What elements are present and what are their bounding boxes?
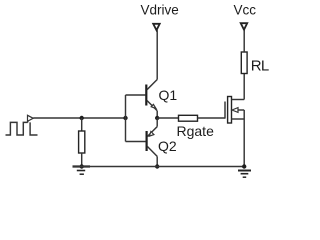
wire Q2 base [126, 141, 146, 143]
wire pull-down resistor bottom lead [81, 153, 83, 167]
MOSFET M1 source stub [232, 118, 245, 120]
power Vdrive arrow [153, 24, 160, 30]
wire Q2 collector to ground rail [156, 156, 158, 166]
node source/ground rail [242, 164, 246, 168]
svg-text:Q2: Q2 [158, 138, 177, 154]
svg-text:Rgate: Rgate [177, 123, 215, 139]
node input/pull-down junction [80, 116, 84, 120]
node output (emitters join) [155, 116, 159, 120]
resistor Rgate [179, 115, 198, 121]
svg-text:RL: RL [251, 58, 269, 75]
svg-text:Vdrive: Vdrive [141, 3, 179, 18]
wire source to ground [243, 110, 245, 167]
node pull-down to ground rail [80, 164, 84, 168]
wire Q2 emitter from output node [156, 118, 158, 127]
wire drain to RL [243, 74, 245, 100]
MOSFET M1 gate lead [224, 102, 226, 119]
wire input to base node [33, 117, 125, 119]
wire Q1 collector to Vdrive [156, 30, 158, 79]
wire Q1 emitter to output node [156, 111, 158, 118]
node base link junction [123, 116, 127, 120]
svg-text:Vcc: Vcc [234, 2, 257, 17]
wire output node to Rgate [157, 117, 178, 119]
wire Rgate to gate [198, 117, 226, 119]
node Q2 collector on ground rail [155, 164, 159, 168]
svg-text:Q1: Q1 [159, 87, 178, 103]
wire base link vertical [125, 95, 127, 142]
transistor Q1 (NPN) [146, 80, 157, 111]
MOSFET M1 body arrow [232, 108, 244, 113]
wire ground rail [73, 166, 245, 168]
MOSFET M1 drain stub [232, 99, 245, 101]
wire RL to Vcc arrow [243, 30, 245, 52]
input pulse source symbol [6, 115, 38, 135]
resistor R1 (input pull-down) [79, 131, 85, 153]
power Vcc arrow [241, 23, 248, 30]
transistor Q2 (PNP) [147, 127, 158, 157]
ground (left) [73, 167, 91, 175]
resistor RL [241, 52, 247, 74]
wire Q1 base [126, 94, 146, 96]
MOSFET M1 channel [228, 97, 232, 124]
ground (right) [238, 171, 251, 178]
wire pull-down resistor top lead [81, 118, 83, 131]
